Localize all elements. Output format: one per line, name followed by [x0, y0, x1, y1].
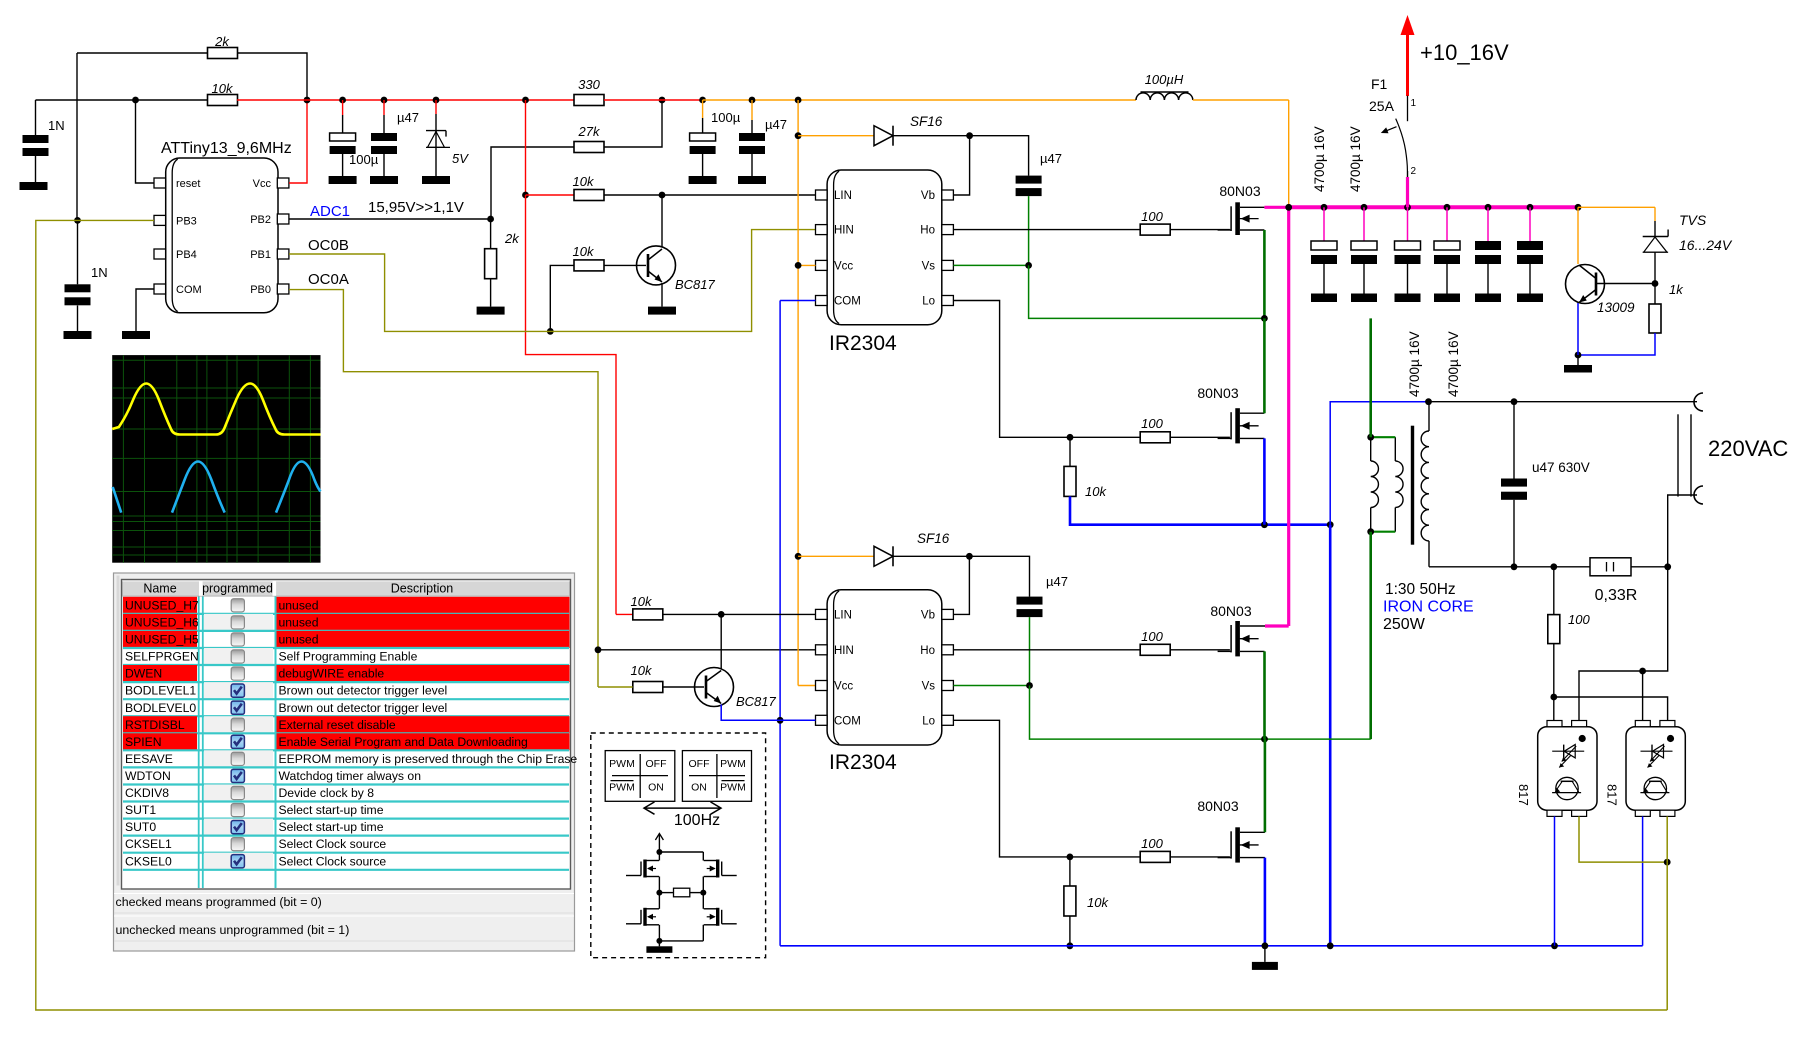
svg-text:+10_16V: +10_16V [1420, 40, 1509, 65]
svg-text:DWEN: DWEN [125, 667, 162, 681]
capacitor C bank 6 [1529, 207, 1531, 241]
svg-text:IR2304: IR2304 [829, 751, 897, 774]
connector 220VAC bottom [1694, 486, 1703, 504]
resistor 10k BC817-2 base [633, 682, 663, 693]
wire bootstrap2 to Vs2 node [1029, 617, 1031, 685]
svg-text:PWM: PWM [609, 782, 635, 794]
svg-text:0,33R: 0,33R [1595, 587, 1638, 604]
wire opto2 left pin riser [1642, 671, 1644, 721]
svg-text:OC0A: OC0A [308, 271, 349, 288]
svg-text:100Hz: 100Hz [674, 812, 720, 829]
svg-text:COM: COM [834, 296, 861, 308]
svg-text:IRON CORE: IRON CORE [1383, 599, 1474, 616]
svg-text:EEPROM memory is preserved thr: EEPROM memory is preserved through the C… [279, 752, 578, 766]
svg-text:Vcc: Vcc [253, 178, 272, 190]
svg-text:Ho: Ho [920, 645, 935, 657]
svg-text:100µH: 100µH [1145, 72, 1184, 87]
pink bus vertical [1287, 207, 1290, 626]
svg-text:10k: 10k [1085, 484, 1107, 499]
optocoupler OC2 817 [1626, 727, 1685, 811]
svg-text:Lo: Lo [922, 296, 935, 308]
svg-text:10k: 10k [212, 81, 234, 96]
diode TVS 16...24V [1654, 221, 1656, 237]
svg-text:COM: COM [834, 715, 861, 727]
svg-text:Vb: Vb [921, 609, 935, 621]
svg-text:10k: 10k [631, 663, 653, 678]
wire 100 bottom to opto1 [1553, 644, 1555, 721]
svg-text:1: 1 [1411, 98, 1417, 109]
svg-text:SUT1: SUT1 [125, 803, 156, 817]
wire opto right bottoms olive [1579, 816, 1667, 862]
capacitor C bank 4 [1446, 207, 1448, 241]
svg-text:80N03: 80N03 [1197, 798, 1238, 814]
wire rail red after 330 [604, 99, 703, 101]
svg-text:5V: 5V [452, 151, 469, 166]
wire orange to bus corner [1193, 99, 1289, 101]
IR2304-2 pins left [816, 609, 828, 619]
IC U2 IR2304 (top) [827, 170, 942, 325]
svg-text:unused: unused [279, 633, 319, 647]
capacitor C u47 bootstrap 1 [970, 136, 1029, 176]
wire PB3 olive to bottom rail [36, 220, 1667, 1010]
svg-text:Ho: Ho [920, 225, 935, 237]
diode D1 SF16 [795, 132, 802, 139]
resistor 10k pulldown gate2 [1069, 437, 1071, 466]
svg-text:Self Programming Enable: Self Programming Enable [279, 650, 418, 664]
wire orange vcc vertical [795, 97, 802, 104]
IR2304-1 pins left [816, 190, 828, 200]
svg-text:817: 817 [1604, 784, 1619, 806]
svg-text:80N03: 80N03 [1219, 183, 1260, 199]
transistor M4 80N03 [1235, 827, 1240, 862]
svg-text:BC817: BC817 [736, 694, 777, 709]
wire M2 source blue [1240, 437, 1264, 439]
svg-text:BC817: BC817 [675, 277, 716, 292]
wire OC0A net olive [289, 290, 598, 687]
svg-text:Select Clock source: Select Clock source [279, 837, 387, 851]
svg-text:Vs: Vs [922, 260, 936, 272]
mains plug lines [1677, 414, 1679, 496]
supply arrow +10_16V [1406, 30, 1409, 96]
svg-text:100: 100 [1141, 629, 1163, 644]
wire reset drop [136, 100, 155, 183]
svg-text:ON: ON [691, 782, 707, 794]
transistor M3 80N03 [1235, 621, 1240, 656]
ground for 100u MCU [329, 176, 357, 184]
resistor 10k BC817-1 base [574, 260, 604, 271]
svg-text:250W: 250W [1383, 616, 1426, 633]
wire bootstrap1 to Vs node [1028, 196, 1030, 265]
wire M1 drain pink [1240, 206, 1264, 208]
svg-text:4700µ 16V: 4700µ 16V [1446, 331, 1461, 397]
svg-text:100: 100 [1141, 416, 1163, 431]
svg-text:IR2304: IR2304 [829, 332, 897, 355]
svg-text:1k: 1k [1669, 282, 1684, 297]
svg-text:u47 630V: u47 630V [1532, 460, 1590, 475]
connector 220VAC top [1694, 393, 1703, 411]
capacitor u47 630V [1513, 402, 1515, 479]
svg-text:checked means programmed (bit: checked means programmed (bit = 0) [116, 895, 322, 909]
transistor Q1 BC817 [637, 246, 716, 292]
wire Ho2 [953, 649, 1139, 651]
svg-text:UNUSED_H5: UNUSED_H5 [125, 633, 199, 647]
svg-text:ATTiny13_9,6MHz: ATTiny13_9,6MHz [161, 140, 292, 157]
optocoupler OC1 817 [1538, 727, 1597, 811]
svg-text:WDTON: WDTON [125, 769, 171, 783]
wire 13009 emitter blue to ground [1577, 303, 1579, 355]
IR2304-2 pins right [942, 609, 954, 619]
svg-text:Devide clock by 8: Devide clock by 8 [279, 786, 375, 800]
resistor R 2k (top) [208, 48, 238, 59]
wire secondary bottom rail [1429, 566, 1590, 568]
H-bridge mini schematic [626, 834, 737, 953]
wire BC817-1 collector [661, 195, 663, 247]
resistor 100 gate3 [1140, 644, 1170, 655]
svg-text:HIN: HIN [834, 225, 854, 237]
svg-text:16...24V: 16...24V [1679, 237, 1733, 253]
svg-text:µ47: µ47 [397, 110, 419, 125]
wire 13009 base [1596, 283, 1655, 285]
svg-text:F1: F1 [1371, 76, 1388, 92]
svg-text:programmed: programmed [202, 581, 273, 595]
svg-text:BODLEVEL1: BODLEVEL1 [125, 684, 196, 698]
capacitor u47 (MCU) [381, 97, 388, 104]
capacitor 100u (MCU) [339, 97, 346, 104]
svg-text:CKDIV8: CKDIV8 [125, 786, 169, 800]
capacitor 100u (12V) [702, 100, 704, 118]
svg-text:OC0B: OC0B [308, 237, 349, 254]
wire 27k left leg [491, 147, 574, 219]
resistor 10k LIN2 [616, 613, 633, 615]
wire COM net blue vertical [779, 301, 781, 946]
resistor 100 sense [1553, 567, 1555, 615]
wire BC817-1 base left leg [550, 265, 574, 331]
wire BC817-1 emitter to ground [661, 283, 663, 307]
svg-text:unused: unused [279, 615, 319, 629]
svg-text:1:30 50Hz: 1:30 50Hz [1385, 581, 1456, 598]
svg-text:PWM: PWM [720, 782, 746, 794]
wire BC817-2 emitter blue to COM2 [721, 705, 815, 721]
svg-text:CKSEL0: CKSEL0 [125, 854, 172, 868]
fuse 0,33R [1590, 558, 1631, 576]
svg-text:Lo: Lo [922, 715, 935, 727]
wire green to primary top [1369, 318, 1372, 437]
resistor 330 [574, 95, 604, 106]
wire rail red segment [237, 99, 574, 101]
ground for u47 12V [738, 176, 766, 184]
wire M2 drain green [1240, 412, 1264, 414]
svg-text:15,95V>>1,1V: 15,95V>>1,1V [368, 199, 464, 216]
IC U3 IR2304 (bottom) [827, 590, 942, 745]
zener diode 5V [433, 97, 440, 104]
svg-text:PB0: PB0 [250, 284, 271, 296]
wire top-left rail to 1N cap [36, 99, 209, 101]
capacitor C u47 bootstrap 2 [969, 556, 1029, 596]
svg-text:Name: Name [143, 581, 176, 595]
svg-text:LIN: LIN [834, 609, 852, 621]
svg-text:BODLEVEL0: BODLEVEL0 [125, 701, 196, 715]
svg-text:SF16: SF16 [910, 114, 943, 129]
capacitor 1N (lower) [74, 217, 81, 224]
pink bus horizontal [1289, 205, 1578, 209]
svg-text:External reset disable: External reset disable [279, 718, 396, 732]
svg-text:Brown out detector trigger lev: Brown out detector trigger level [279, 684, 448, 698]
ground BC817-1 [648, 307, 676, 315]
IR2304-1 pins right [942, 190, 954, 200]
wire M4 source blue [1240, 857, 1265, 859]
resistor 2k vertical [490, 219, 492, 249]
wire secondary top rail [1429, 401, 1698, 403]
svg-text:2k: 2k [504, 231, 520, 246]
wire LIN1 line [604, 194, 816, 196]
svg-text:220VAC: 220VAC [1708, 436, 1788, 461]
wire Ho1 [953, 229, 1139, 231]
resistor 1k [1654, 284, 1656, 305]
blue ground rail [780, 945, 1643, 947]
ground for 2k [477, 307, 505, 315]
resistor 10k pulldown gate4 [1069, 857, 1071, 887]
ground for 5V zener [422, 176, 450, 184]
svg-text:CKSEL1: CKSEL1 [125, 837, 172, 851]
wire Vs1 green [953, 264, 1028, 266]
svg-text:µ47: µ47 [1046, 574, 1068, 589]
ground for 1N upper [20, 182, 48, 190]
diode D2 SF16 [795, 553, 802, 560]
svg-text:4700µ 16V: 4700µ 16V [1348, 126, 1363, 192]
svg-text:10k: 10k [1087, 895, 1109, 910]
PWM timing info box [591, 733, 766, 958]
capacitor u47 (12V) [749, 97, 756, 104]
resistor 100 gate2 [1140, 432, 1170, 443]
svg-text:PB1: PB1 [250, 249, 271, 261]
resistor R 10k (top) [208, 95, 238, 106]
svg-text:PWM: PWM [720, 758, 746, 770]
svg-text:Brown out detector trigger lev: Brown out detector trigger level [279, 701, 448, 715]
svg-text:25A: 25A [1369, 98, 1395, 114]
wire Vs2 green [953, 685, 1029, 687]
svg-text:Vcc: Vcc [834, 681, 853, 693]
svg-text:SF16: SF16 [917, 531, 950, 546]
svg-text:13009: 13009 [1597, 300, 1635, 315]
transformer T1 [1367, 402, 1429, 567]
ground for u47 MCU [370, 176, 398, 184]
svg-text:unchecked means unprogrammed (: unchecked means unprogrammed (bit = 1) [116, 923, 350, 937]
svg-text:100: 100 [1568, 612, 1590, 627]
svg-text:Vs: Vs [922, 681, 936, 693]
svg-text:10k: 10k [573, 244, 595, 259]
capacitor C bank 5 [1487, 207, 1489, 241]
svg-text:OFF: OFF [689, 758, 710, 770]
svg-text:100µ: 100µ [349, 152, 379, 167]
transistor Q2 BC817 [695, 668, 777, 710]
wire ADC1 PB2 [289, 218, 491, 220]
IC U1 ATTiny13 body [166, 158, 278, 313]
wire COM to ground [136, 289, 154, 331]
svg-text:unused: unused [279, 598, 319, 612]
svg-text:µ47: µ47 [765, 117, 787, 132]
svg-text:2k: 2k [214, 34, 230, 49]
svg-text:100µ: 100µ [711, 110, 741, 125]
ground for 1N lower [64, 331, 92, 339]
wire M3 source dark green [1240, 650, 1265, 652]
capacitor 1N (upper) [35, 100, 37, 135]
svg-text:4700µ 16V: 4700µ 16V [1407, 331, 1422, 397]
wire SF16-1 cathode to Vb [893, 135, 970, 137]
svg-text:TVS: TVS [1679, 212, 1707, 228]
AVR fuse bits table window [114, 573, 578, 951]
svg-text:Select start-up time: Select start-up time [279, 803, 384, 817]
wire M4 drain green [1240, 831, 1265, 833]
svg-text:HIN: HIN [834, 645, 854, 657]
ground 13009 [1564, 365, 1592, 373]
wire blue down to gnd rail [1329, 525, 1332, 946]
svg-text:ADC1: ADC1 [310, 203, 350, 220]
svg-text:100: 100 [1141, 209, 1163, 224]
svg-text:Description: Description [391, 581, 454, 595]
ground symbol main [1264, 946, 1266, 962]
wire rail orange segment [699, 97, 706, 104]
wire y697 to opto2 right pin [1554, 697, 1668, 721]
transistor M1 80N03 (top) [1235, 202, 1240, 235]
transistor M2 80N03 [1235, 408, 1240, 443]
wire M1 source dark green [1240, 229, 1264, 231]
svg-text:100: 100 [1141, 836, 1163, 851]
svg-text:ON: ON [648, 782, 664, 794]
capacitor C bank 1 [1323, 207, 1325, 241]
wire Vcc red [289, 100, 307, 183]
inductor L1 100uH [1141, 91, 1189, 93]
capacitor C bank 3 [1407, 207, 1409, 241]
resistor 27k [574, 142, 604, 153]
svg-text:SELFPRGEN: SELFPRGEN [125, 650, 199, 664]
capacitor C bank 2 [1363, 207, 1365, 241]
wire 13009 collector orange [1577, 207, 1579, 264]
resistor 100 gate4 [1140, 851, 1170, 862]
ATTiny13 pins left [154, 178, 166, 188]
svg-text:µ47: µ47 [1040, 151, 1062, 166]
svg-text:Select Clock source: Select Clock source [279, 854, 387, 868]
wire 220VAC bottom to 0,33R [1668, 495, 1697, 567]
svg-text:Select start-up time: Select start-up time [279, 820, 384, 834]
svg-text:debugWIRE enable: debugWIRE enable [279, 667, 385, 681]
svg-text:SUT0: SUT0 [125, 820, 156, 834]
wire BC817-2 collector to LIN2 [720, 614, 722, 668]
svg-text:Vb: Vb [921, 190, 935, 202]
svg-text:330: 330 [578, 77, 600, 92]
wire opto2 left bottom blue [1642, 816, 1644, 945]
svg-text:SPIEN: SPIEN [125, 735, 162, 749]
svg-text:Watchdog timer always on: Watchdog timer always on [279, 769, 421, 783]
wire olive down to bottom rail [1666, 862, 1668, 1010]
svg-text:1N: 1N [91, 265, 108, 280]
svg-text:OFF: OFF [646, 758, 667, 770]
svg-text:Vcc: Vcc [834, 260, 853, 272]
svg-text:LIN: LIN [834, 190, 852, 202]
svg-text:PWM: PWM [609, 758, 635, 770]
svg-text:PB3: PB3 [176, 215, 197, 227]
resistor 10k LIN1 [574, 190, 604, 201]
wire HIN2 line [598, 649, 816, 651]
wire 10k to LIN1 red stub [526, 194, 575, 196]
svg-text:80N03: 80N03 [1210, 603, 1251, 619]
svg-text:4700µ 16V: 4700µ 16V [1312, 126, 1327, 192]
wire orange bus to TVS [1578, 206, 1655, 208]
svg-text:EESAVE: EESAVE [125, 752, 173, 766]
ground for 100u 12V [689, 176, 717, 184]
oscilloscope screenshot [112, 355, 320, 563]
wire SF16-2 cathode to Vb2 [893, 555, 969, 557]
svg-text:80N03: 80N03 [1197, 385, 1238, 401]
wire 2k-left vertical to PB3 node [76, 53, 78, 220]
wire 1k bottom blue [1578, 333, 1655, 355]
wire 0,33R junction down [1579, 567, 1668, 721]
svg-text:Enable Serial Program and Data: Enable Serial Program and Data Downloadi… [279, 735, 528, 749]
wire 27k right leg [604, 100, 662, 147]
ATTiny13 pins right [277, 178, 289, 188]
wire OC0B net olive [289, 230, 816, 332]
wire red vertical to LIN pullups [525, 100, 527, 195]
wire Lo2 to gate4 [953, 720, 1141, 857]
wire green to primary bottom [1369, 532, 1372, 739]
wire COM1 blue [780, 300, 815, 302]
wire 10k2 to blue rail [1070, 496, 1330, 524]
transistor Q3 13009 [1566, 265, 1636, 316]
wire M3 drain pink [1240, 625, 1265, 627]
svg-text:COM: COM [176, 284, 202, 296]
svg-text:27k: 27k [578, 124, 601, 139]
ground for COM [122, 331, 150, 339]
svg-text:UNUSED_H7: UNUSED_H7 [125, 598, 199, 612]
svg-text:reset: reset [176, 178, 200, 190]
svg-text:UNUSED_H6: UNUSED_H6 [125, 615, 199, 629]
svg-text:1N: 1N [48, 118, 65, 133]
svg-text:PB4: PB4 [176, 249, 197, 261]
svg-text:10k: 10k [573, 174, 595, 189]
wire BC817-1 base right [604, 264, 646, 266]
svg-text:817: 817 [1516, 784, 1531, 806]
wire LIN2 line [663, 613, 816, 615]
resistor 100 gate1 [1140, 224, 1170, 235]
svg-text:10k: 10k [631, 594, 653, 609]
wire blue riser to transformer top [1330, 402, 1428, 525]
svg-text:PB2: PB2 [250, 214, 271, 226]
svg-text:RSTDISBL: RSTDISBL [125, 718, 185, 732]
svg-text:2: 2 [1411, 166, 1417, 177]
wire opto1 left bottom blue [1554, 816, 1556, 945]
wire Lo1 to gate2 [953, 301, 1139, 438]
wire 2k top rail [77, 52, 208, 54]
